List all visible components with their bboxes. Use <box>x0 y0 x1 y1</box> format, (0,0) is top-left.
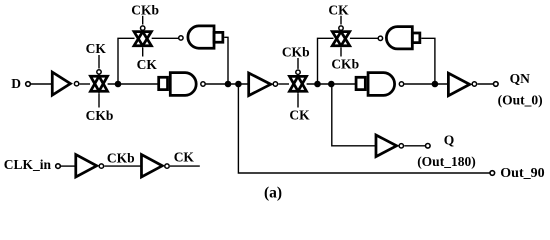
bubble U5 output <box>99 164 103 168</box>
nand gate G4 (feedback, mirrored) <box>386 27 412 49</box>
wire TG1 to G1 <box>108 83 158 85</box>
wire G3 to U3 <box>404 83 449 85</box>
wire TG1 gate stub top <box>98 55 100 69</box>
svg-text:CKb: CKb <box>282 45 310 60</box>
svg-text:D: D <box>11 76 21 91</box>
wire TG3 to G3 <box>307 83 356 85</box>
transmission gate TG1 <box>91 76 108 91</box>
bubble U6 output <box>165 164 169 168</box>
inverter U6 <box>141 155 162 177</box>
wire TG4 to G4 <box>350 37 378 39</box>
terminal QN <box>494 82 499 87</box>
bubble G2 output <box>179 36 183 40</box>
svg-text:CK: CK <box>86 41 107 56</box>
wire U3 to terminal QN <box>477 83 493 85</box>
svg-text:CK: CK <box>137 57 158 72</box>
junction node B (G2 input tap) <box>225 81 232 88</box>
inverter U4 (Q) <box>376 135 397 157</box>
transmission gate TG3 <box>290 76 307 91</box>
wire U2 to TG3 <box>278 83 289 85</box>
bubble U3 output <box>472 82 476 86</box>
wire U4 to terminal Q <box>404 145 425 147</box>
junction node Out_90 tap <box>235 81 242 88</box>
terminal D <box>26 82 31 87</box>
nand gate G3 <box>356 77 365 89</box>
svg-text:(Out_180): (Out_180) <box>417 154 476 169</box>
wire TG3 gate stub bottom <box>297 94 299 108</box>
svg-text:(a): (a) <box>264 185 282 202</box>
wire TG2 to G2 <box>152 37 179 39</box>
svg-text:CK: CK <box>174 150 195 165</box>
inverter U3 <box>448 73 469 96</box>
wire Q tap down to U4 <box>332 84 376 146</box>
svg-text:CKb: CKb <box>86 108 114 123</box>
svg-text:Q: Q <box>444 133 455 148</box>
junction node A <box>115 81 122 88</box>
junction node Q tap <box>328 81 335 88</box>
wire TG4 gate stub top <box>340 16 342 25</box>
wire TG2 gate stub top <box>142 16 144 25</box>
svg-text:CKb: CKb <box>107 151 135 166</box>
terminal Out_90 <box>490 171 495 176</box>
wire CLK_in to U5 <box>60 165 75 167</box>
nand gate G2 (feedback, mirrored) <box>188 26 214 48</box>
wire U5 to U6 <box>104 165 141 167</box>
wire TG3 gate stub top <box>297 58 299 69</box>
svg-text:Out_90: Out_90 <box>500 166 544 181</box>
svg-text:CLK_in: CLK_in <box>4 157 52 172</box>
svg-text:QN: QN <box>510 71 531 86</box>
junction node C <box>314 81 321 88</box>
terminal CLK_in <box>56 164 61 169</box>
wire D to U1 <box>30 83 52 85</box>
wire TG2 gate stub bottom <box>142 48 144 57</box>
wire G1 to U2 <box>206 83 249 85</box>
inverter U1 <box>52 72 70 95</box>
wire U1 to TG1 <box>80 83 90 85</box>
inverter U5 <box>76 155 97 177</box>
bubble G1 output <box>201 82 205 86</box>
transmission gate TG4 <box>332 32 349 46</box>
svg-text:(Out_0): (Out_0) <box>498 92 543 107</box>
nand gate G1 <box>159 77 168 89</box>
svg-text:CK: CK <box>328 3 349 18</box>
svg-text:CK: CK <box>289 108 310 123</box>
bubble U1 output <box>74 82 78 86</box>
wire TG4 gate stub bottom <box>340 48 342 57</box>
bubble U2 output <box>273 82 277 86</box>
terminal Q <box>426 144 431 149</box>
wire node A up to TG2 <box>118 38 135 84</box>
bubble G3 output <box>399 82 403 86</box>
bubble U4 output <box>399 144 403 148</box>
wire G2 input from node B <box>224 37 228 84</box>
wire TG1 gate stub bottom <box>98 94 100 108</box>
bubble G4 output <box>378 36 382 40</box>
transmission gate TG2 <box>134 32 151 46</box>
wire node C up to TG4 <box>318 38 334 84</box>
inverter U2 <box>249 73 271 96</box>
wire G4 input from node D <box>421 38 435 84</box>
svg-text:CKb: CKb <box>131 3 159 18</box>
svg-text:CKb: CKb <box>331 57 359 72</box>
wire CK out <box>170 165 200 167</box>
junction node D (G4 input tap) <box>432 81 439 88</box>
wire Out_90 tap down and right <box>238 84 490 173</box>
